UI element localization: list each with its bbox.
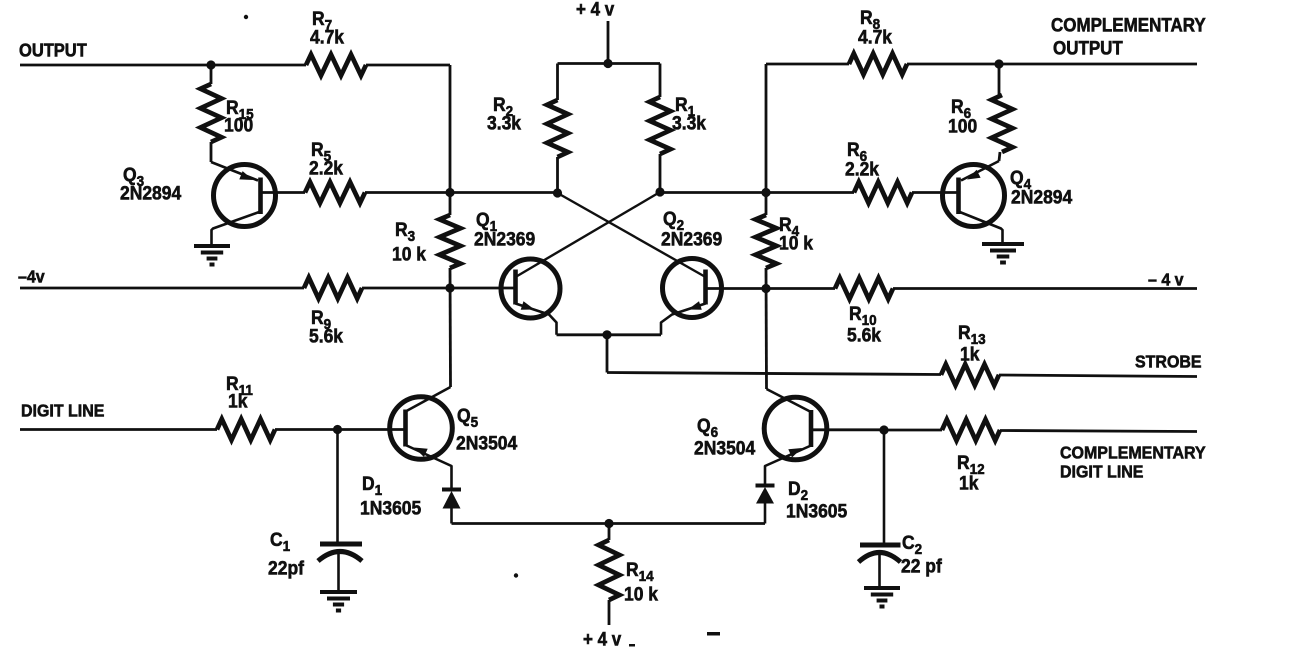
svg-text:10 k: 10 k [779,232,814,254]
svg-text:2N2894: 2N2894 [120,182,182,204]
svg-text:5.6k: 5.6k [847,324,882,346]
svg-text:1N3605: 1N3605 [786,500,847,522]
resistor R7 [306,7,366,75]
wire Q4 base row [660,191,959,194]
svg-text:100: 100 [224,114,253,136]
svg-text:COMPLEMENTARY: COMPLEMENTARY [1051,15,1206,36]
wire -4v right rail [706,287,1198,290]
node R3 bottom junction [445,283,454,292]
svg-text:1k: 1k [228,390,248,412]
resistor R4 [756,213,814,268]
net label -4v left [18,267,45,287]
wire top center bus [558,62,661,65]
svg-text:5.6k: 5.6k [309,325,344,347]
wire Q3 base row [261,191,558,194]
wire left column [449,65,452,215]
node R14 junction [604,519,613,528]
wire -4v left rail [20,287,516,290]
node R1 bottom [655,187,664,196]
svg-text:DIGIT LINE: DIGIT LINE [21,401,104,421]
svg-text:R14: R14 [626,558,654,585]
wire strobe rail [607,373,1197,377]
net label -4 v right [1148,270,1184,290]
wire bottom bus [452,522,766,525]
svg-text:OUTPUT: OUTPUT [19,40,87,61]
capacitor C1 [268,430,362,593]
resistor R9 [304,278,362,347]
resistor R13 [941,321,999,385]
svg-text:+ 4 v: + 4 v [576,0,614,20]
svg-text:1k: 1k [960,343,980,365]
svg-text:4.7k: 4.7k [858,26,893,48]
net label COMPLEMENTARY OUTPUT [1051,15,1206,59]
svg-text:22 pf: 22 pf [901,555,943,577]
svg-text:100: 100 [948,115,977,137]
resistor R1 [650,64,707,193]
transistor Q1 [474,208,560,335]
svg-text:22pf: 22pf [268,557,305,579]
svg-text:D1: D1 [362,472,382,499]
svg-text:2N2369: 2N2369 [474,228,535,250]
node R4 bottom junction [761,284,770,293]
speck [244,15,720,647]
capacitor C2 [859,430,943,588]
diode D1 [360,472,461,523]
wire cross-coupling Q1 collector [516,192,661,277]
diode D2 [756,477,848,523]
svg-text:– 4 v: – 4 v [1148,270,1184,290]
resistor R11 [217,372,275,440]
svg-text:DIGIT LINE: DIGIT LINE [1060,462,1143,482]
svg-text:2.2k: 2.2k [309,157,344,179]
node emitter bus junction [602,330,611,339]
node +4v junction [603,59,612,68]
resistor R6 (100) [948,64,1013,161]
node C1 junction [333,425,342,434]
svg-text:C1: C1 [270,528,290,555]
svg-text:10 k: 10 k [392,243,427,265]
svg-text:10 k: 10 k [624,583,659,605]
resistor R15 [201,65,254,162]
wire comp digit rail [811,430,1197,432]
node R4 top junction [761,188,770,197]
svg-text:1k: 1k [959,472,979,494]
svg-text:OUTPUT: OUTPUT [1053,38,1123,59]
net label STROBE [1135,352,1202,372]
wire left column lower [449,268,452,387]
svg-text:R3: R3 [395,218,415,245]
svg-text:2.2k: 2.2k [845,158,880,180]
ground under Q3 [194,246,230,265]
node R2 bottom [553,188,562,197]
ground under Q4 [982,244,1024,263]
wire digit line rail [20,428,406,431]
wire right column [765,64,768,215]
svg-text:–4v: –4v [18,267,45,287]
svg-text:2N2369: 2N2369 [661,228,722,250]
wire right column lower [765,268,768,389]
resistor R5 [305,138,365,203]
svg-text:STROBE: STROBE [1135,352,1202,372]
resistor R12 [942,420,1000,494]
svg-text:3.3k: 3.3k [672,112,707,134]
svg-text:1N3605: 1N3605 [360,497,421,519]
svg-text:+ 4 v: + 4 v [583,629,621,650]
transistor Q4 [943,161,1073,244]
ground under C2 [864,588,900,607]
wire strobe stem [606,335,609,373]
resistor R2 [487,64,568,194]
svg-text:2N2894: 2N2894 [1011,186,1073,208]
resistor R8 [849,6,907,74]
svg-text:4.7k: 4.7k [310,26,345,48]
node output/R15 junction [206,60,215,69]
node R5/R3 junction [445,188,454,197]
net label COMPLEMENTARY DIGIT LINE [1060,443,1206,482]
wire emitter bus Q1/Q2 [557,333,662,336]
svg-text:2N3504: 2N3504 [694,437,756,459]
wire complementary output rail [766,63,1197,66]
power +4v top [576,0,614,64]
transistor Q6 [694,389,827,485]
resistor R10 [835,278,893,346]
transistor Q5 [390,387,518,488]
ground under C1 [320,592,357,611]
wire output rail [20,64,450,67]
node comp-output/R6 junction [994,59,1003,68]
transistor Q2 [661,207,722,335]
resistor R3 [392,215,461,268]
svg-text:2N3504: 2N3504 [456,432,518,454]
resistor R14 [599,524,659,626]
svg-text:3.3k: 3.3k [487,112,522,134]
svg-text:Q5: Q5 [457,404,478,431]
wire cross-coupling Q2 collector [558,193,706,277]
transistor Q3 [120,162,276,246]
power +4v bottom [583,629,621,650]
net label DIGIT LINE [21,401,104,421]
node C2 junction [879,425,888,434]
net label OUTPUT [19,40,87,61]
svg-text:COMPLEMENTARY: COMPLEMENTARY [1060,443,1206,463]
resistor R6 (2.2k) [845,138,912,203]
